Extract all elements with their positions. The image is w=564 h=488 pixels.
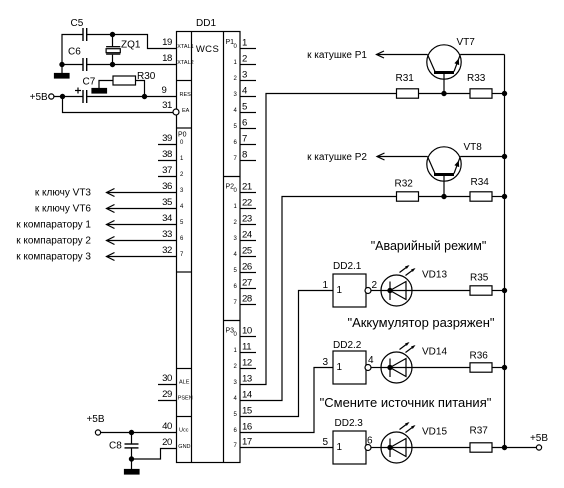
resistor R37 — [470, 426, 493, 453]
svg-text:32: 32 — [162, 245, 172, 256]
wire R32 to VT8 base to R34 — [419, 196, 471, 198]
node: C5/ZQ1 junction — [110, 32, 114, 36]
svg-text:25: 25 — [242, 246, 252, 257]
svg-text:27: 27 — [242, 278, 252, 289]
svg-text:VT8: VT8 — [464, 142, 483, 153]
svg-text:6: 6 — [242, 118, 247, 129]
+5B terminal (right) — [530, 433, 548, 450]
capacitor C8 — [109, 433, 139, 460]
svg-text:+5B: +5B — [86, 414, 104, 425]
wire pin 16 to DD2.2 input — [240, 368, 333, 433]
svg-text:5: 5 — [242, 102, 247, 113]
svg-text:6: 6 — [367, 436, 373, 447]
svg-text:29: 29 — [162, 389, 172, 400]
svg-text:23: 23 — [242, 214, 252, 225]
+5B terminal (reset circuit) — [30, 92, 54, 103]
node: +5B branch junction — [60, 94, 64, 98]
LED VD15 — [381, 422, 447, 463]
svg-text:4: 4 — [368, 355, 374, 366]
svg-text:R31: R31 — [396, 73, 415, 84]
svg-text:10: 10 — [242, 326, 252, 337]
svg-text:3: 3 — [322, 357, 328, 368]
svg-text:15: 15 — [242, 406, 252, 417]
wire +5B to pin 31 (EA) — [63, 97, 174, 113]
svg-text:1: 1 — [242, 38, 247, 49]
P1 bit digits — [234, 44, 238, 162]
svg-text:C6: C6 — [68, 47, 81, 58]
svg-text:DD1: DD1 — [196, 18, 216, 29]
ground (crystal) — [55, 65, 70, 79]
inverter DD2.2 — [322, 340, 374, 384]
svg-text:XTAL2: XTAL2 — [177, 60, 193, 66]
resistor R33 — [467, 73, 492, 98]
IC internal labels left column — [177, 44, 193, 450]
svg-text:16: 16 — [242, 422, 252, 433]
wire C6 net to pin 18 (XTAL2) — [62, 64, 177, 66]
crystal ZQ1 — [106, 35, 141, 65]
svg-text:C7: C7 — [83, 77, 96, 88]
capacitor C7 (electrolytic) — [75, 77, 96, 104]
svg-text:35: 35 — [162, 197, 172, 208]
svg-text:EA: EA — [182, 108, 190, 114]
node: R34/rail junction — [502, 194, 506, 198]
wire pin 14 to R32 base net — [240, 197, 397, 401]
svg-text:22: 22 — [242, 198, 252, 209]
svg-text:DD2.3: DD2.3 — [335, 418, 364, 429]
wire/arrow VT7 collector to к катушке Р1 — [307, 50, 427, 61]
svg-text:34: 34 — [162, 213, 173, 224]
wire/arrow pin 32 to к компаратору 3 — [16, 252, 176, 263]
node: C5/C6/ground junction — [60, 62, 64, 66]
svg-text:PSEN: PSEN — [178, 396, 193, 402]
svg-text:28: 28 — [242, 294, 252, 305]
svg-text:1: 1 — [337, 285, 343, 296]
svg-text:VD13: VD13 — [422, 270, 447, 281]
svg-text:31: 31 — [162, 100, 172, 111]
svg-text:19: 19 — [162, 37, 172, 48]
svg-text:WCS: WCS — [196, 44, 219, 55]
inversion bubble pin 31 — [173, 109, 179, 115]
svg-text:к компаратору 3: к компаратору 3 — [16, 252, 91, 263]
svg-text:1: 1 — [322, 280, 328, 291]
transistor VT8 — [427, 142, 482, 197]
ground (C8) — [125, 459, 140, 474]
svg-text:R36: R36 — [470, 351, 489, 362]
inverter DD2.1 — [322, 261, 377, 307]
wire/arrow pin 34 to к компаратору 1 — [16, 220, 176, 231]
+5B terminal (bottom power) — [86, 414, 104, 435]
svg-text:ZQ1: ZQ1 — [121, 40, 141, 51]
wire VD13 to R35 — [412, 290, 470, 292]
P2 bit digits — [234, 188, 238, 306]
wire +5B to C7 — [54, 96, 83, 98]
svg-text:26: 26 — [242, 262, 252, 273]
node: R30/RES junction — [142, 94, 146, 98]
svg-text:3: 3 — [242, 70, 247, 81]
wire DD2.2 output to VD14 — [371, 367, 381, 369]
svg-text:VD15: VD15 — [422, 427, 447, 438]
svg-text:GND: GND — [178, 444, 190, 450]
svg-text:P0: P0 — [178, 132, 187, 139]
resistor R31 — [396, 73, 419, 98]
plain pin stubs left: pins 39 38 37 30 29 — [158, 145, 177, 401]
svg-text:8: 8 — [242, 150, 247, 161]
svg-text:к ключу VT3: к ключу VT3 — [35, 188, 92, 199]
svg-text:12: 12 — [242, 358, 252, 369]
svg-text:17: 17 — [242, 437, 252, 448]
wire R35 to rail — [492, 290, 505, 292]
wire R37 to rail and +5B terminal — [492, 447, 536, 449]
P3 bit digits — [234, 332, 238, 449]
wire/arrow pin 33 to к компаратору 2 — [16, 236, 176, 247]
node: R36/rail junction — [502, 365, 506, 369]
capacitor C5 — [71, 18, 87, 41]
node: R33/rail junction — [502, 91, 506, 95]
resistor R30 — [99, 71, 156, 97]
svg-text:+5B: +5B — [30, 92, 48, 103]
svg-text:38: 38 — [162, 149, 172, 160]
node: rail bottom junction — [502, 445, 506, 449]
node: C6/ZQ1 junction — [110, 62, 114, 66]
svg-text:DD2.2: DD2.2 — [333, 340, 362, 351]
svg-text:к компаратору 2: к компаратору 2 — [16, 236, 91, 247]
node: C8/GND junction — [129, 457, 133, 461]
svg-text:DD2.1: DD2.1 — [333, 261, 362, 272]
wire GND pin 20 to ground — [132, 449, 177, 460]
svg-text:11: 11 — [242, 342, 251, 353]
svg-text:40: 40 — [162, 421, 172, 432]
capacitor C6 — [68, 47, 87, 72]
pin numbers left side — [162, 37, 173, 448]
svg-text:1: 1 — [337, 442, 343, 453]
wire pin 13 to R31 base net — [240, 94, 397, 385]
svg-text:к катушке Р1: к катушке Р1 — [307, 50, 367, 61]
svg-text:к компаратору 1: к компаратору 1 — [16, 220, 91, 231]
svg-text:2: 2 — [242, 54, 247, 65]
wire VD15 to R37 — [412, 447, 470, 449]
wire C5 top net to pin 19 (XTAL1) — [62, 35, 177, 65]
wire VD14 to R36 — [412, 367, 470, 369]
svg-text:R32: R32 — [395, 179, 414, 190]
P0 bit digits — [180, 140, 184, 258]
svg-text:"Аварийный режим": "Аварийный режим" — [371, 239, 487, 253]
+5B rail (right side) — [504, 55, 506, 448]
svg-text:RES: RES — [180, 92, 192, 98]
inverter DD2.3 — [322, 418, 373, 464]
svg-text:"Смените источник питания": "Смените источник питания" — [320, 395, 492, 410]
wire R31 to VT7 base to R33 — [419, 93, 471, 95]
wire/arrow pin 36 to к ключу VT3 — [35, 188, 177, 199]
svg-text:VT7: VT7 — [457, 37, 476, 48]
resistor R32 — [395, 179, 419, 202]
LED VD13 — [381, 265, 447, 306]
svg-text:R30: R30 — [137, 71, 156, 82]
wire R33 to rail — [492, 93, 505, 95]
svg-text:XTAL1: XTAL1 — [177, 44, 193, 50]
svg-text:9: 9 — [162, 85, 167, 96]
svg-text:"Аккумулятор разряжен": "Аккумулятор разряжен" — [347, 315, 494, 330]
svg-text:VD14: VD14 — [422, 347, 447, 358]
svg-text:ALE: ALE — [179, 380, 190, 386]
svg-text:2: 2 — [372, 280, 378, 291]
svg-text:к катушке Р2: к катушке Р2 — [307, 152, 367, 163]
svg-text:30: 30 — [162, 373, 172, 384]
svg-text:C5: C5 — [71, 18, 84, 29]
svg-text:7: 7 — [242, 134, 247, 145]
svg-text:R33: R33 — [467, 73, 486, 84]
svg-text:R34: R34 — [471, 177, 490, 188]
node: VT8 emitter/rail junction — [502, 154, 506, 158]
resistor R34 — [470, 177, 492, 201]
wire DD2.3 output to VD15 — [371, 447, 381, 449]
svg-text:+5B: +5B — [530, 433, 548, 444]
wire VT7 emitter to rail — [460, 54, 504, 56]
node: C8/Ucc junction — [129, 430, 133, 434]
svg-text:24: 24 — [242, 230, 253, 241]
wire R34 to rail — [492, 196, 505, 198]
pin numbers right side — [242, 38, 253, 448]
svg-text:R35: R35 — [470, 273, 489, 284]
wire/arrow VT8 collector to к катушке Р2 — [307, 152, 427, 163]
svg-text:36: 36 — [162, 181, 172, 192]
svg-text:39: 39 — [162, 133, 172, 144]
svg-text:21: 21 — [242, 182, 252, 193]
wire pin 17 to DD2.3 input — [240, 447, 333, 449]
wire R36 to rail — [492, 367, 505, 369]
resistor R36 — [470, 351, 493, 373]
svg-text:13: 13 — [242, 374, 252, 385]
svg-text:к ключу VT6: к ключу VT6 — [35, 204, 92, 215]
svg-text:R37: R37 — [470, 426, 489, 437]
svg-text:C8: C8 — [109, 441, 122, 452]
svg-text:33: 33 — [162, 229, 172, 240]
svg-text:37: 37 — [162, 165, 172, 176]
svg-text:18: 18 — [162, 53, 172, 64]
svg-text:1: 1 — [337, 362, 343, 373]
svg-text:20: 20 — [162, 437, 172, 448]
ground (R30) — [92, 89, 107, 94]
svg-text:5: 5 — [322, 437, 328, 448]
node: VT8 base junction — [442, 194, 446, 198]
wire VT8 emitter to rail — [460, 156, 504, 158]
wire DD2.1 output to VD13 — [371, 290, 381, 292]
IC DD1 body — [177, 18, 241, 463]
wire C7 to pin 9 (RES) — [87, 96, 177, 98]
node: R35/rail junction — [502, 288, 506, 292]
node: VT7 base junction — [442, 91, 446, 95]
resistor R35 — [470, 273, 492, 296]
transistor VT7 — [427, 37, 475, 94]
wire/arrow pin 35 to к ключу VT6 — [35, 204, 177, 215]
plain pin stubs right: pins 1-8 21-28 10 11 12 — [240, 49, 256, 369]
wire +5B to pin 40 (Ucc) — [101, 432, 177, 434]
LED VD14 — [381, 342, 447, 383]
svg-text:14: 14 — [242, 390, 253, 401]
svg-text:Ucc: Ucc — [179, 428, 189, 434]
wire pin 15 to DD2.1 input — [240, 291, 333, 417]
